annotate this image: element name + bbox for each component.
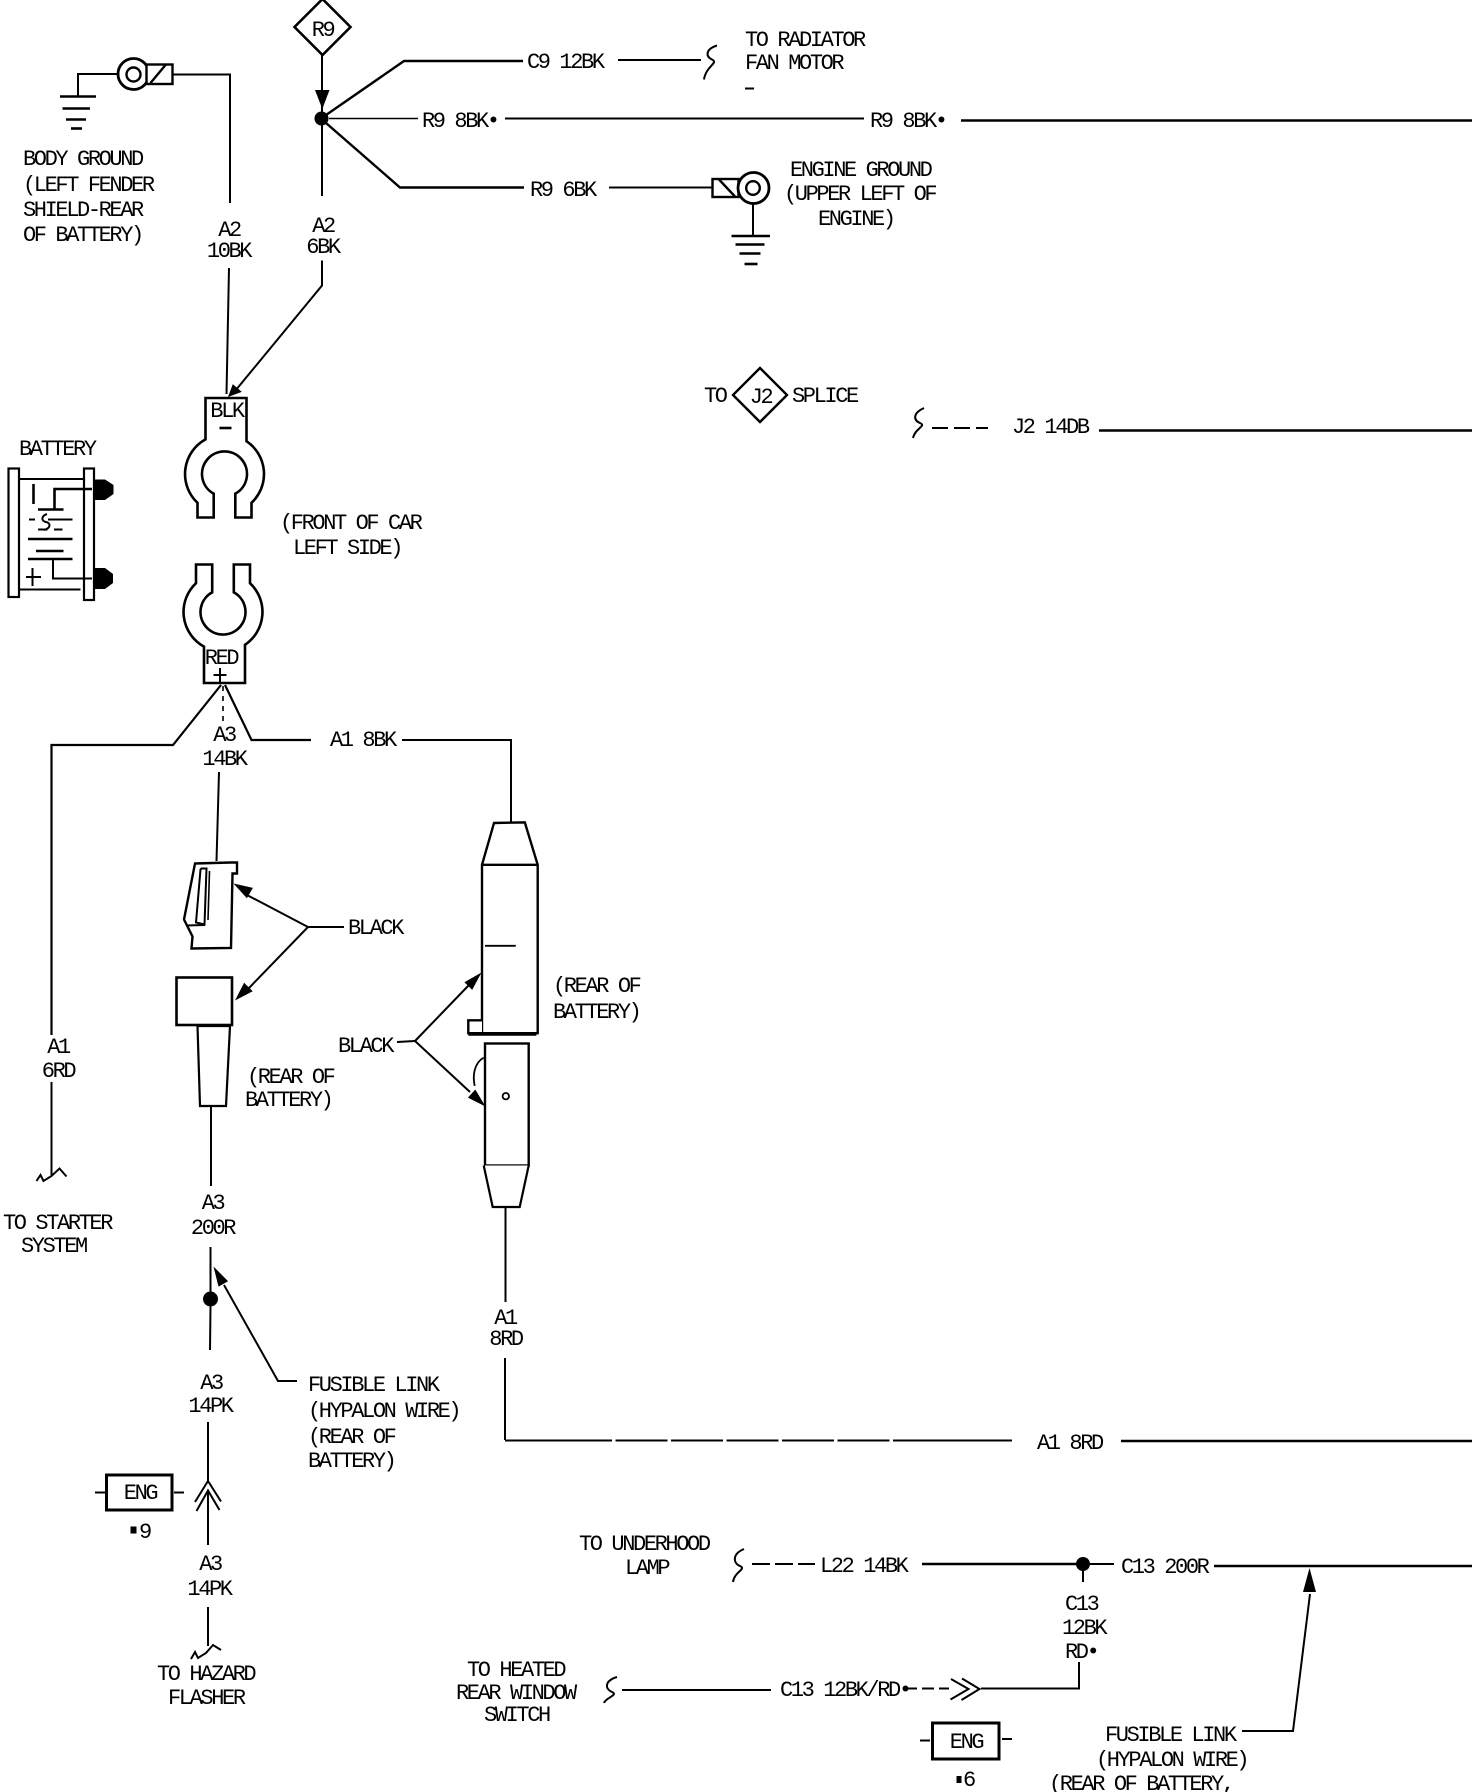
svg-text:SWITCH: SWITCH (484, 1703, 550, 1728)
connector slashed box (body ground) (147, 65, 173, 85)
svg-text:SYSTEM: SYSTEM (21, 1234, 87, 1259)
svg-text:ENGINE GROUND: ENGINE GROUND (790, 158, 933, 183)
body ground symbol (60, 97, 96, 129)
wire R9 6BK (326, 123, 713, 188)
svg-text:14PK: 14PK (187, 1577, 233, 1602)
wire break squiggle (to starter) (37, 1169, 67, 1182)
plug taper (left) (198, 1026, 231, 1106)
svg-text:A1 8RD: A1 8RD (1037, 1431, 1104, 1456)
svg-text:BLACK: BLACK (338, 1034, 395, 1059)
svg-text:A3: A3 (213, 723, 236, 748)
wire L22 14BK (752, 1563, 1077, 1565)
label ENGINE GROUND (UPPER LEFT OF ENGINE) (784, 158, 936, 232)
svg-text:R9 8BK•: R9 8BK• (870, 109, 946, 134)
label A3 200R (191, 1191, 236, 1241)
battery symbol (9, 469, 114, 601)
svg-text:J2: J2 (750, 385, 773, 410)
svg-text:C13 12BK/RD•: C13 12BK/RD• (780, 1678, 910, 1703)
svg-text:OF BATTERY): OF BATTERY) (23, 223, 142, 248)
svg-text:(REAR OF: (REAR OF (553, 974, 641, 999)
junction node (C13) (1076, 1557, 1090, 1571)
connector slashed box (engine ground) (713, 179, 739, 197)
svg-text:A3: A3 (199, 1552, 222, 1577)
wire break squiggle (J2 wire) (913, 408, 924, 438)
wire A1 8BK (225, 685, 511, 822)
fusible link callout (right) (1049, 1568, 1316, 1792)
svg-text:(LEFT FENDER: (LEFT FENDER (23, 173, 155, 198)
svg-text:TO STARTER: TO STARTER (3, 1211, 113, 1236)
wire C13 200R (1090, 1564, 1472, 1566)
svg-text:RD•: RD• (1065, 1640, 1097, 1665)
label (FRONT OF CAR LEFT SIDE) (280, 511, 423, 561)
svg-text:TO UNDERHOOD: TO UNDERHOOD (579, 1532, 711, 1557)
wire A3 14PK (upper) (209, 1306, 212, 1350)
wire A3 200R (210, 1107, 213, 1294)
svg-text:A3: A3 (200, 1371, 223, 1396)
wire C13 12BK/RD* (left segment) (622, 1689, 771, 1691)
wire below chevrons (207, 1491, 209, 1545)
wire C13 12BK/RD* (right segment) (981, 1662, 1079, 1689)
wire A1 6RD (52, 685, 222, 1175)
splice symbol J2 (704, 368, 859, 422)
label A2 6BK (306, 214, 342, 260)
ring terminal (engine ground) (738, 173, 769, 204)
svg-text:6BK: 6BK (306, 235, 342, 260)
svg-text:FLASHER: FLASHER (168, 1686, 246, 1711)
wire break squiggle (underhood lamp) (733, 1549, 744, 1582)
svg-text:(REAR OF: (REAR OF (308, 1425, 396, 1450)
terminal RED (battery positive clamp) (184, 565, 263, 684)
splice symbol R9 (295, 0, 351, 55)
svg-text:10BK: 10BK (207, 239, 253, 264)
svg-text:BATTERY): BATTERY) (308, 1449, 394, 1474)
svg-text:9: 9 (139, 1520, 151, 1545)
label TO UNDERHOOD LAMP (579, 1532, 711, 1581)
svg-text:TO HEATED: TO HEATED (467, 1658, 566, 1683)
wire break squiggle (heated rear window) (604, 1677, 617, 1703)
svg-text:14PK: 14PK (188, 1394, 234, 1419)
svg-text:LEFT SIDE): LEFT SIDE) (293, 536, 401, 561)
svg-text:TO RADIATOR: TO RADIATOR (745, 28, 866, 53)
connector chevrons (C13 in-line) (951, 1679, 980, 1701)
label A3 14PK (upper) (188, 1371, 234, 1419)
splice reference ENG #9 (95, 1475, 184, 1545)
wire R9 to junction with arrowhead (315, 55, 330, 112)
svg-text:R9 6BK: R9 6BK (530, 178, 598, 203)
wire break squiggle (to hazard) (191, 1645, 221, 1659)
svg-text:R9 8BK•: R9 8BK• (422, 109, 498, 134)
svg-text:BATTERY): BATTERY) (245, 1088, 331, 1113)
svg-text:(HYPALON WIRE): (HYPALON WIRE) (308, 1399, 459, 1424)
svg-text:SHIELD-REAR: SHIELD-REAR (23, 198, 144, 223)
label (REAR OF BATTERY) left (245, 1065, 335, 1113)
fusible link callout (left) (214, 1267, 460, 1475)
svg-text:BLK: BLK (210, 399, 246, 424)
svg-text:BODY GROUND: BODY GROUND (23, 147, 144, 172)
wire J2 14DB (932, 428, 1472, 431)
label (REAR OF BATTERY) right (553, 974, 641, 1025)
svg-text:A1: A1 (47, 1035, 71, 1060)
wire to hazard flasher (207, 1607, 209, 1646)
wire A1 8RD (horizontal) (505, 1440, 1472, 1443)
wire A3 14BK (217, 772, 220, 861)
svg-text:A1 8BK: A1 8BK (330, 728, 398, 753)
svg-text:12BK: 12BK (1062, 1616, 1108, 1641)
svg-text:14BK: 14BK (202, 747, 248, 772)
label BLACK (left) with arrows (234, 884, 406, 1001)
label A1 8RD (vertical) (489, 1306, 524, 1352)
label A3 14PK (lower) (187, 1552, 233, 1602)
svg-text:C9 12BK: C9 12BK (527, 50, 606, 75)
svg-text:FAN MOTOR: FAN MOTOR (745, 51, 844, 76)
svg-text:FUSIBLE LINK: FUSIBLE LINK (308, 1373, 441, 1398)
junction node (315, 112, 329, 126)
label TO HEATED REAR WINDOW SWITCH (456, 1658, 578, 1728)
wire A2 10BK (173, 75, 231, 395)
svg-text:ENGINE): ENGINE) (818, 207, 894, 232)
svg-text:LAMP: LAMP (625, 1556, 670, 1581)
wire body ground to ring terminal (78, 74, 117, 96)
wire A1 8RD (vertical) (504, 1207, 507, 1440)
svg-text:C13 200R: C13 200R (1121, 1555, 1210, 1580)
ring terminal (body ground) (118, 59, 149, 90)
label BLACK (right) with arrows (338, 973, 486, 1107)
label TO STARTER SYSTEM (3, 1211, 113, 1259)
label A3 14BK (202, 723, 248, 772)
label BODY GROUND (LEFT FENDER SHIELD-REAR OF BATTERY) (23, 147, 155, 248)
svg-text:BATTERY): BATTERY) (553, 1000, 639, 1025)
svg-text:J2 14DB: J2 14DB (1012, 415, 1090, 440)
label A1 6RD (42, 1035, 77, 1084)
engine ground symbol (732, 204, 771, 265)
splice reference ENG #6 (920, 1723, 1012, 1792)
wire A3 down to chevron (207, 1422, 209, 1481)
svg-text:(HYPALON WIRE): (HYPALON WIRE) (1096, 1748, 1247, 1773)
svg-text:(REAR OF: (REAR OF (247, 1065, 335, 1090)
svg-text:(UPPER LEFT OF: (UPPER LEFT OF (784, 182, 936, 207)
label TO HAZARD FLASHER (157, 1662, 256, 1711)
arrowhead into BLK tab (228, 384, 242, 397)
label A2 10BK (207, 218, 253, 264)
svg-text:ENG: ENG (124, 1481, 158, 1506)
svg-text:6RD: 6RD (42, 1059, 77, 1084)
connector chevrons (A3 in-line) (195, 1481, 221, 1511)
svg-text:TO: TO (704, 384, 728, 409)
connector square (left) (177, 978, 233, 1026)
junction node (fusible link) (203, 1292, 218, 1307)
label TO RADIATOR FAN MOTOR (745, 28, 866, 89)
terminal BLK (battery negative clamp) (185, 398, 264, 518)
svg-text:200R: 200R (191, 1216, 236, 1241)
wire A2 6BK (233, 125, 322, 394)
svg-text:L22 14BK: L22 14BK (820, 1554, 910, 1579)
fusible link holder (upper left connector) (184, 863, 237, 949)
svg-text:BATTERY: BATTERY (19, 437, 97, 462)
svg-text:FUSIBLE LINK: FUSIBLE LINK (1105, 1723, 1238, 1748)
connector lower right (474, 1044, 529, 1208)
wire battery positive lead (dashed) (222, 686, 224, 722)
svg-text:(FRONT OF CAR: (FRONT OF CAR (280, 511, 423, 536)
svg-text:R9: R9 (312, 18, 335, 43)
svg-text:(REAR OF BATTERY,: (REAR OF BATTERY, (1049, 1772, 1233, 1792)
label C13 12BK RD* (1062, 1592, 1108, 1665)
svg-text:8RD: 8RD (489, 1327, 524, 1352)
svg-text:C13: C13 (1065, 1592, 1099, 1617)
wire C13 12BK/RD* (dashes before chevron) (905, 1688, 949, 1690)
svg-text:SPLICE: SPLICE (792, 384, 859, 409)
svg-text:TO HAZARD: TO HAZARD (157, 1662, 256, 1687)
svg-text:ENG: ENG (950, 1730, 984, 1755)
wire C9 12BK (326, 46, 717, 116)
svg-text:6: 6 (963, 1768, 975, 1792)
svg-text:RED: RED (205, 646, 240, 671)
wire R9 8BK* (329, 119, 1472, 121)
svg-text:BLACK: BLACK (348, 916, 405, 941)
svg-text:A3: A3 (202, 1191, 225, 1216)
connector upper right (rear of battery) (468, 822, 537, 1034)
